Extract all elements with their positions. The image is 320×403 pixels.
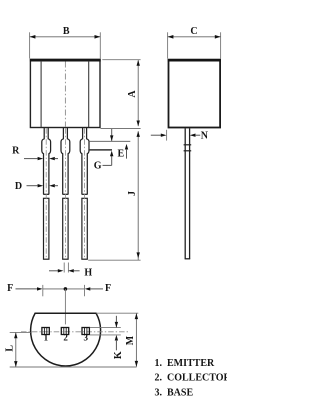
svg-text:H: H [84,268,92,279]
bottom view flat edge extension to M [96,312,138,314]
dimension J [127,131,140,260]
dimension H [49,263,92,279]
svg-text:F: F [7,283,13,294]
dimension E reference line upper [88,140,130,142]
dimension A [127,60,140,126]
svg-text:A: A [127,90,138,98]
E lower arrow and label [117,144,128,160]
pin 3 pad [82,328,89,343]
pin 3 extension lines to K [90,327,121,329]
front lead 2 [61,128,70,259]
svg-text:C: C [190,26,197,37]
dimension G leader [94,151,114,172]
svg-text:1: 1 [44,333,49,343]
dimension A extension lines [102,59,140,61]
bottom view package center extension line [64,289,66,324]
svg-text:N: N [201,131,209,142]
svg-text:1. EMITTER: 1. EMITTER [155,358,216,369]
front body centerline [64,62,66,127]
bottom view pin centerline [21,331,128,333]
svg-text:F: F [105,283,111,294]
dimension N [151,130,209,142]
front lead 3 [80,128,89,259]
svg-text:2: 2 [63,333,68,343]
side view body outline [168,60,221,128]
svg-text:3. BASE: 3. BASE [155,387,194,398]
lead 3 centerline [84,128,86,258]
front view body outline [30,60,101,128]
pin 1 pad [42,328,49,343]
dimension L [4,333,17,367]
lead 1 centerline [45,128,47,258]
side view lead [185,128,191,258]
side lead break marks [184,144,192,146]
svg-text:D: D [15,181,22,192]
dimension J extension line at lead tips [88,259,140,261]
front lead 1 [42,128,51,259]
dimension B [30,26,101,58]
pin 2 pad [61,328,68,343]
svg-text:L: L [4,345,15,352]
dimension E reference line lower [88,149,112,151]
front body inner edge lines [40,61,42,127]
svg-text:2. COLLECTOR: 2. COLLECTOR [155,373,228,384]
E upper arrow [110,129,113,141]
dimension L extension lines [10,331,31,333]
dimension R [12,145,58,160]
svg-text:R: R [12,145,20,156]
dimension K [113,316,124,359]
dimension D [15,181,58,192]
bottom view outline [31,313,101,366]
lead 2 centerline [64,128,66,258]
svg-text:G: G [94,160,102,171]
svg-text:B: B [63,26,70,37]
svg-text:K: K [113,351,124,359]
dimension C [168,26,221,58]
svg-text:M: M [125,335,136,345]
svg-text:J: J [127,191,138,196]
svg-text:E: E [117,148,124,159]
svg-text:3: 3 [84,333,89,343]
dimension M [125,313,138,366]
dimension F [7,283,111,296]
